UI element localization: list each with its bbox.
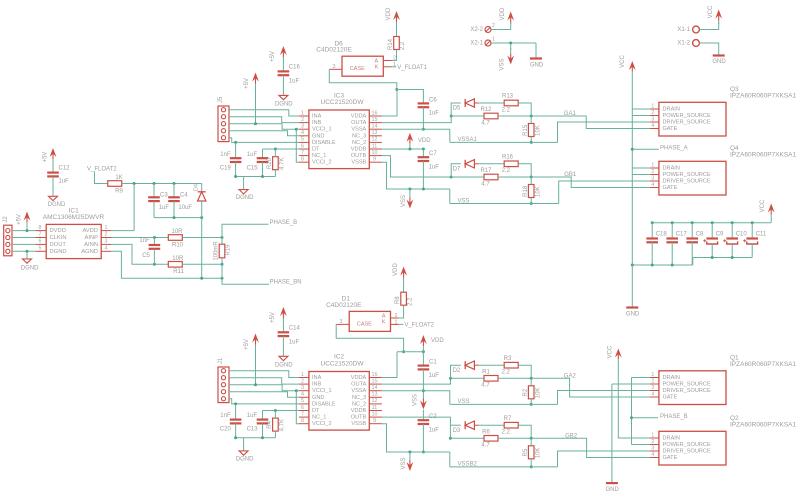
wire VCCI_1 to VCCI_2 bottom <box>296 391 299 424</box>
wire C11 top stem <box>751 223 753 239</box>
svg-text:C19: C19 <box>220 165 232 171</box>
svg-text:R13: R13 <box>502 94 514 100</box>
svg-text:DRIVER_SOURCE: DRIVER_SOURCE <box>663 448 711 454</box>
svg-text:POWER_SOURCE: POWER_SOURCE <box>663 113 711 119</box>
VSS arrow at X2 <box>507 48 514 65</box>
Q4 pin stubs <box>650 162 659 188</box>
svg-text:10: 10 <box>372 150 378 156</box>
svg-text:1: 1 <box>651 103 654 109</box>
capacitor C15 <box>257 158 269 162</box>
svg-text:8: 8 <box>301 157 304 163</box>
junction VCCI_1/VCCI_2 bottom <box>295 389 298 392</box>
svg-text:C13: C13 <box>247 427 259 433</box>
wire R4 stems <box>274 411 276 438</box>
IC3 pin names <box>312 113 367 165</box>
ground DGND below C14 <box>279 356 288 360</box>
svg-text:VSS: VSS <box>401 457 407 469</box>
VCC arrow at cap bank <box>768 204 775 223</box>
resistor R1 <box>481 369 498 388</box>
svg-text:X1-2: X1-2 <box>677 41 690 47</box>
svg-text:NC_2: NC_2 <box>352 140 366 146</box>
wire GB2 to Q2 gate <box>531 438 650 457</box>
svg-text:14: 14 <box>372 385 378 391</box>
svg-text:1K: 1K <box>115 175 122 181</box>
wire D6 cathode to V_FLOAT1 <box>392 66 397 68</box>
svg-text:POWER_SOURCE: POWER_SOURCE <box>663 442 711 448</box>
svg-text:GA1: GA1 <box>564 111 577 117</box>
svg-text:UCC21520DW: UCC21520DW <box>321 99 365 106</box>
wire DGND stem bottom <box>243 438 245 451</box>
label Q2 <box>730 415 797 429</box>
capacitor C3 <box>148 197 160 201</box>
wire C1 top stem <box>422 352 424 366</box>
svg-text:2.2: 2.2 <box>502 429 511 435</box>
svg-text:VDD: VDD <box>431 338 444 344</box>
resistor R16 <box>502 154 519 174</box>
svg-text:3: 3 <box>301 385 304 391</box>
svg-text:4: 4 <box>301 130 304 136</box>
capacitor C14 <box>278 332 290 336</box>
label D2 <box>453 368 461 374</box>
polarized capacitor C11 <box>743 239 758 245</box>
resistor R10 <box>168 229 183 248</box>
Q2 pin stubs <box>650 432 659 458</box>
junction C20 top <box>234 402 237 405</box>
svg-text:2: 2 <box>395 313 398 319</box>
svg-text:14: 14 <box>372 124 378 130</box>
junction +5V/DVDD <box>26 229 29 232</box>
svg-text:VDD: VDD <box>418 138 431 144</box>
wire J5 pin4 to GND <box>229 131 299 136</box>
IC3 pin numbers <box>301 110 378 162</box>
net label GA2 <box>564 373 577 379</box>
wire to D5 <box>451 103 461 116</box>
svg-text:12: 12 <box>372 137 378 143</box>
net label VSS <box>458 198 470 204</box>
transistor Q2 IPZA60R060P7XKSA1 body <box>659 431 726 465</box>
svg-text:VCCI_1: VCCI_1 <box>312 127 332 133</box>
svg-text:C1: C1 <box>429 360 437 366</box>
svg-text:VDDB: VDDB <box>351 408 367 414</box>
label C10 <box>736 232 748 238</box>
VCC arrow at X1 <box>715 10 722 25</box>
svg-text:3: 3 <box>651 175 654 181</box>
diode D1 C4D02120E body <box>349 311 390 331</box>
wire C17 top stem <box>671 223 673 239</box>
wire VCC to Q2 drain <box>618 359 649 438</box>
svg-text:3: 3 <box>651 445 654 451</box>
ground DGND below C19 <box>239 190 248 194</box>
svg-text:16: 16 <box>372 372 378 378</box>
junction C6 on VSSA rail <box>422 128 425 131</box>
wire AGND to node <box>111 251 222 278</box>
wire J2 pin1 to IC1 <box>12 230 36 232</box>
svg-text:4.7: 4.7 <box>481 383 490 389</box>
svg-text:3: 3 <box>340 319 343 325</box>
ground GND mid <box>626 306 638 308</box>
svg-text:D7: D7 <box>453 166 461 172</box>
junction AGND/D4 <box>200 277 203 280</box>
svg-text:PHASE_B: PHASE_B <box>270 220 298 226</box>
wire C2 bottom stem <box>422 424 424 452</box>
svg-text:1uF: 1uF <box>429 165 440 171</box>
ground DGND below C12 <box>49 196 58 200</box>
svg-text:6: 6 <box>301 143 304 149</box>
transistor Q3 IPZA60R060P7XKSA1 body <box>659 102 726 136</box>
net label PHASE_BN <box>270 279 302 285</box>
svg-text:R16: R16 <box>502 154 514 160</box>
label IC1 <box>43 208 105 221</box>
C6 labels <box>429 97 440 116</box>
net label V_FLOAT2 <box>87 167 117 173</box>
svg-text:R1: R1 <box>482 369 490 375</box>
diode D2 <box>465 361 479 369</box>
wire DGND stem <box>243 177 245 190</box>
wire J1 pin2 to INB <box>229 378 299 384</box>
junction GA1 node <box>530 115 533 118</box>
junction R20 top <box>274 148 277 151</box>
svg-text:4: 4 <box>301 392 304 398</box>
svg-text:1uF: 1uF <box>247 152 258 158</box>
svg-text:1uF: 1uF <box>289 78 300 84</box>
svg-text:1: 1 <box>301 110 304 116</box>
svg-text:C17: C17 <box>676 232 688 238</box>
svg-text:10K: 10K <box>535 186 541 197</box>
svg-text:X2-2: X2-2 <box>470 27 483 33</box>
resistor R17 <box>480 168 498 187</box>
svg-text:+5V: +5V <box>270 51 276 62</box>
svg-text:DRAIN: DRAIN <box>663 106 680 112</box>
svg-text:11: 11 <box>372 143 378 149</box>
diode D7 <box>465 160 479 168</box>
wire PHASE_B bus <box>631 378 633 445</box>
capacitor C4 <box>168 197 180 201</box>
+5V arrow at C16 <box>280 46 287 71</box>
resistor R7 <box>502 416 519 436</box>
svg-text:VCCI_1: VCCI_1 <box>312 388 332 394</box>
wire C19 bottom stem <box>235 162 237 177</box>
resistor R6 <box>481 429 498 448</box>
wire GA1 to Q3 gate <box>531 116 650 129</box>
junction PHASE_A <box>631 148 634 151</box>
svg-text:X1-1: X1-1 <box>677 27 690 33</box>
svg-text:OUTA: OUTA <box>351 382 366 388</box>
label Q1 <box>730 355 797 369</box>
svg-text:3: 3 <box>651 116 654 122</box>
svg-text:DRIVER_SOURCE: DRIVER_SOURCE <box>663 178 711 184</box>
svg-text:R20: R20 <box>267 157 273 169</box>
wire GND riser to Q1 power_source <box>612 383 650 385</box>
wire VDDA jog <box>382 90 397 116</box>
svg-text:INA: INA <box>312 113 322 119</box>
transistor Q1 IPZA60R060P7XKSA1 body <box>659 371 726 405</box>
svg-text:R3: R3 <box>504 356 512 362</box>
svg-text:VSSB: VSSB <box>351 421 366 427</box>
resistor R3 <box>502 356 519 376</box>
wire D1 case down <box>336 324 403 351</box>
D6 anode stub <box>383 60 391 62</box>
svg-text:INB: INB <box>312 120 322 126</box>
wire D6 case down <box>329 69 397 89</box>
svg-text:1uF: 1uF <box>429 111 440 117</box>
wire R13 down <box>518 103 531 116</box>
wire VDDB rail <box>382 148 424 150</box>
wire C6 bottom stem <box>422 107 424 129</box>
IC2 pin stubs <box>299 378 382 424</box>
C19 labels <box>220 152 232 172</box>
svg-text:C6: C6 <box>429 97 437 103</box>
svg-text:4: 4 <box>651 391 654 397</box>
wire R2 stems <box>530 378 532 404</box>
junction bus to cap bar <box>631 264 634 267</box>
svg-text:VDD: VDD <box>500 7 506 20</box>
wire to C6 top <box>397 90 424 104</box>
svg-text:C7: C7 <box>429 151 437 157</box>
svg-text:15: 15 <box>372 117 378 123</box>
Q3 pin stubs <box>650 103 659 129</box>
svg-text:2.2: 2.2 <box>502 168 511 174</box>
+5V arrow at J2 <box>24 212 31 231</box>
wire C5 bottom stem <box>153 249 155 264</box>
svg-text:PHASE_BN: PHASE_BN <box>270 279 302 285</box>
VSS arrow mid bottom <box>420 392 427 410</box>
svg-text:INB: INB <box>312 382 322 388</box>
svg-text:GND: GND <box>312 395 324 401</box>
gate driver IC2 UCC21520DW body <box>309 372 369 431</box>
junction C17 bottom <box>671 264 674 267</box>
ground GND at X1 <box>713 54 725 56</box>
wire C14 to DGND <box>282 336 284 356</box>
wire D4 top stem <box>201 184 203 192</box>
wire C7 top stem <box>422 149 424 157</box>
svg-text:1: 1 <box>651 372 654 378</box>
svg-text:2: 2 <box>651 439 654 445</box>
wire PHASE_B stub <box>222 224 269 237</box>
svg-text:DT: DT <box>312 408 320 414</box>
svg-text:GATE: GATE <box>663 126 678 132</box>
VSS arrow at VSSB2 <box>407 452 414 471</box>
junction +5V on pin3 wire <box>254 122 257 125</box>
svg-text:10K: 10K <box>535 448 541 459</box>
svg-text:R6: R6 <box>482 429 490 435</box>
wire C13 top stem <box>262 411 264 420</box>
svg-text:10uF: 10uF <box>178 205 192 211</box>
resistor R20 <box>267 157 286 170</box>
net label PHASE_A <box>660 145 688 151</box>
junction OUTA/R12/D5 <box>450 115 453 118</box>
svg-text:+5V: +5V <box>270 312 276 323</box>
net label PHASE_B at Q2 <box>660 414 688 420</box>
svg-text:10K: 10K <box>535 125 541 136</box>
wire DT row bottom <box>263 410 299 412</box>
wire VSS line <box>450 203 559 205</box>
wire R19 stems <box>221 238 223 265</box>
capacitor C5 <box>149 245 161 249</box>
junction C9 bottom <box>711 256 714 259</box>
label IC3 <box>321 92 365 106</box>
svg-text:DRAIN: DRAIN <box>663 165 680 171</box>
svg-text:C14: C14 <box>289 325 301 331</box>
wire C13 bottom stem <box>262 423 264 437</box>
wire R20 stems <box>274 149 276 177</box>
wire PHASE_A stub <box>632 148 658 150</box>
capacitor C7 <box>418 157 430 161</box>
svg-text:13: 13 <box>372 392 378 398</box>
svg-text:10R: 10R <box>172 256 184 262</box>
svg-text:AVDD: AVDD <box>82 228 98 234</box>
connector J1 <box>218 367 229 403</box>
svg-text:4.7: 4.7 <box>481 181 490 187</box>
svg-text:1nF: 1nF <box>220 413 231 419</box>
svg-text:VCC: VCC <box>708 5 714 18</box>
svg-text:GND: GND <box>712 59 726 65</box>
svg-text:C4D02120E: C4D02120E <box>316 47 352 54</box>
svg-text:6: 6 <box>301 405 304 411</box>
wire VSSB2 line <box>450 466 558 468</box>
wire C10 bottom stem <box>731 244 733 257</box>
wire VDD rail bottom <box>397 351 423 353</box>
capacitor C19 <box>230 158 242 162</box>
wire OUTB to R6 node <box>382 417 451 438</box>
wire VSSB2 to Q2 driver_source <box>558 451 650 467</box>
wire cap bank lower bar <box>632 264 693 266</box>
junction C15 bottom <box>261 175 264 178</box>
C14 labels <box>289 325 301 345</box>
svg-text:R15: R15 <box>523 124 529 136</box>
wire AVDD pin1 riser <box>111 184 134 231</box>
svg-text:4.7K: 4.7K <box>279 419 285 431</box>
ground DGND at J2 <box>26 251 28 259</box>
svg-text:10: 10 <box>372 411 378 417</box>
wire C10 top stem <box>731 223 733 239</box>
svg-text:C12: C12 <box>59 166 71 172</box>
net label GB2 <box>565 433 578 439</box>
label C8 <box>696 232 704 238</box>
svg-text:15: 15 <box>372 378 378 384</box>
svg-text:GND: GND <box>606 487 620 493</box>
svg-text:VSSB: VSSB <box>351 160 366 166</box>
+5V arrow at J1 <box>252 334 259 385</box>
svg-text:C3: C3 <box>160 192 168 198</box>
wire OUTA to R1 node <box>382 378 451 384</box>
wire R6 right <box>498 437 531 439</box>
svg-text:C8: C8 <box>696 232 704 238</box>
connector X1-1 <box>677 26 699 33</box>
resistor R8 <box>395 292 413 306</box>
svg-text:2.2: 2.2 <box>407 297 413 306</box>
svg-text:2: 2 <box>651 169 654 175</box>
junction C1 top <box>422 350 425 353</box>
wire V_FLOAT2 to R9 <box>95 172 108 184</box>
svg-text:POWER_SOURCE: POWER_SOURCE <box>663 172 711 178</box>
svg-text:AINN: AINN <box>84 242 98 248</box>
svg-text:13: 13 <box>372 130 378 136</box>
junction GB1 node <box>530 176 533 179</box>
wire X2-1 to GND <box>491 42 536 44</box>
svg-text:1: 1 <box>395 319 398 325</box>
svg-text:1uF: 1uF <box>247 413 258 419</box>
wire R11 to R19 bottom <box>182 263 222 265</box>
svg-text:VSSA1: VSSA1 <box>458 137 478 143</box>
C4 labels <box>178 192 192 211</box>
svg-text:1nF: 1nF <box>139 238 150 244</box>
svg-text:4: 4 <box>651 123 654 129</box>
wire C20 top stem <box>235 404 237 420</box>
junction VSS arrow bottom <box>408 451 411 454</box>
svg-text:9: 9 <box>373 418 376 424</box>
svg-text:VCCI_2: VCCI_2 <box>312 421 332 427</box>
wire C11 bottom stem <box>751 244 753 257</box>
svg-text:R2: R2 <box>523 388 529 396</box>
ground GND at X2 <box>530 57 542 59</box>
C7 labels <box>429 151 440 170</box>
junction C7 bottom <box>422 188 425 191</box>
net label VSS bottom <box>458 399 470 405</box>
svg-text:100mR: 100mR <box>214 241 220 261</box>
wire bus to Q3 power_source <box>632 115 650 117</box>
resistor R19 <box>214 241 232 261</box>
wire D5 to R13 <box>479 102 505 104</box>
wire C4 top stem <box>173 184 175 198</box>
wire R9 to D4 node <box>122 183 202 185</box>
svg-text:8: 8 <box>39 225 42 231</box>
wire R12 left <box>451 115 484 117</box>
svg-text:V_FLOAT1: V_FLOAT1 <box>397 65 427 71</box>
C2 labels <box>429 414 440 433</box>
junction OUTA/R1/D2 <box>449 377 452 380</box>
junction C17 top <box>671 221 674 224</box>
wire to D2 <box>451 365 461 378</box>
svg-text:R10: R10 <box>172 242 184 248</box>
junction C19 bottom <box>234 175 237 178</box>
wire D1 cathode to V_FLOAT2 <box>399 323 404 325</box>
junction AGND/PHASE_BN <box>221 277 224 280</box>
VDD arrow at R8 <box>400 267 407 292</box>
junction VSS at X2 <box>509 42 512 45</box>
junction VDD node bottom <box>402 350 405 353</box>
+5V arrow at J5 <box>252 73 259 124</box>
wire R1 right <box>498 377 531 379</box>
wire to D3 <box>450 424 460 426</box>
wire R1 left <box>451 377 485 379</box>
svg-text:+5V: +5V <box>16 214 22 225</box>
wire J2 pin2 to IC1 <box>12 237 36 239</box>
wire to VSS arrow <box>510 43 512 50</box>
junction C5 top <box>153 236 156 239</box>
svg-text:7: 7 <box>301 150 304 156</box>
svg-text:GATE: GATE <box>663 455 678 461</box>
svg-text:V_FLOAT2: V_FLOAT2 <box>404 322 434 328</box>
wire C18 top stem <box>651 223 653 239</box>
label C9 <box>716 232 724 238</box>
wire R17 right <box>498 176 531 178</box>
junction GA2 node <box>530 377 533 380</box>
junction C4 bottom <box>173 216 176 219</box>
C13 labels <box>247 413 259 433</box>
junction C7 top <box>422 148 425 151</box>
junction DGND pin5 <box>26 250 29 253</box>
svg-text:5: 5 <box>301 398 304 404</box>
D1 pin texts <box>357 313 386 327</box>
svg-text:A: A <box>382 313 386 319</box>
wire VCCI_1 to VCCI_2 <box>296 129 299 162</box>
svg-text:1uF: 1uF <box>159 205 170 211</box>
junction +5V on J1 pin3 wire <box>254 383 257 386</box>
svg-text:VDDA: VDDA <box>351 113 367 119</box>
svg-text:4: 4 <box>651 182 654 188</box>
svg-text:DISABLE: DISABLE <box>312 401 336 407</box>
wire VSSB rail <box>382 162 450 189</box>
